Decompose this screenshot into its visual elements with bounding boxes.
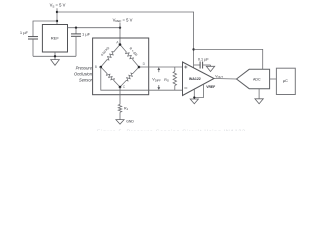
ground symbol GND bbox=[116, 120, 134, 125]
wire VS branch to ADC supply bbox=[194, 49, 263, 69]
svg-text:GND: GND bbox=[126, 120, 134, 124]
wire node C down to R1 bbox=[119, 87, 121, 104]
gain resistor RG bbox=[164, 67, 176, 90]
svg-text:Occlusion: Occlusion bbox=[74, 72, 93, 77]
resistor R1 bbox=[118, 104, 128, 112]
bridge resistor (B-C) bbox=[101, 67, 120, 87]
wire ADC to microcontroller bbox=[270, 78, 276, 80]
plus input mark bbox=[184, 66, 187, 69]
svg-text:ADC: ADC bbox=[253, 78, 261, 82]
wire VREF rail bbox=[68, 27, 121, 29]
pressure sensor module box bbox=[93, 38, 149, 95]
svg-text:Pressure: Pressure bbox=[76, 66, 93, 71]
instrumentation amplifier U2 INA122 bbox=[183, 62, 215, 96]
junction dot VREF label bbox=[119, 27, 121, 29]
bypass capacitor C3 0.1 uF bbox=[194, 58, 211, 69]
svg-text:0.1 µF: 0.1 µF bbox=[198, 58, 210, 62]
minus input mark bbox=[184, 87, 187, 89]
wire VREF down to bridge node A bbox=[119, 28, 121, 45]
svg-text:Figure 5. Pressure-Sensing Cir: Figure 5. Pressure-Sensing Circuit Using… bbox=[97, 130, 245, 131]
svg-text:VREF = 5 V: VREF = 5 V bbox=[113, 17, 133, 23]
wire VS rail to INA122 V+ bbox=[57, 12, 194, 68]
junction dot REF ground bbox=[54, 55, 56, 57]
amp V- pin wire to ground bbox=[193, 89, 195, 99]
bridge resistor (C-D) bbox=[120, 67, 139, 87]
wire REF ground stub bbox=[54, 52, 56, 60]
svg-text:µC: µC bbox=[283, 78, 288, 83]
wire R1 to ground bbox=[119, 112, 121, 119]
wire VS stub down to REF input bbox=[56, 8, 58, 24]
wire VOUT amp to ADC bbox=[214, 78, 237, 81]
wire node B to amp -in bbox=[101, 67, 183, 90]
svg-text:1 µF: 1 µF bbox=[82, 31, 91, 36]
ground symbol under ADC bbox=[255, 99, 263, 104]
ground symbol at C3 bbox=[206, 65, 214, 72]
node A bbox=[116, 40, 121, 45]
bridge resistor 4.00 kOhm (A-B) bbox=[100, 45, 120, 68]
microcontroller uC bbox=[276, 68, 295, 94]
ground symbol under amp bbox=[190, 99, 198, 104]
node B bbox=[95, 65, 102, 69]
svg-text:1 µF: 1 µF bbox=[20, 30, 29, 35]
wire ADC ground stub bbox=[258, 89, 260, 99]
svg-text:VS = 5 V: VS = 5 V bbox=[50, 3, 66, 9]
annotation VDIFF differential voltage arrows bbox=[152, 67, 161, 90]
net label VREF = 5 V bbox=[113, 17, 133, 27]
bridge resistor R + dR (A-D) bbox=[120, 45, 139, 68]
capacitor C1 1 uF bbox=[20, 30, 38, 39]
wire C1 bottom to ground rail bbox=[32, 39, 34, 56]
junction dot C1 tap bbox=[56, 20, 58, 22]
node D bbox=[138, 62, 146, 68]
amp REF pin wire bbox=[194, 84, 203, 97]
junction dot amp ground bbox=[193, 96, 195, 98]
wire node D to amp +in bbox=[139, 66, 183, 68]
svg-text:REF: REF bbox=[51, 36, 60, 41]
wire C2 bottom to ground rail bbox=[75, 36, 77, 56]
junction dot VS rail tap bbox=[56, 11, 58, 13]
junction dot VS to ADC branch bbox=[192, 48, 194, 50]
svg-text:VREF: VREF bbox=[206, 85, 215, 89]
svg-text:INA122: INA122 bbox=[189, 77, 201, 81]
svg-text:VOUT: VOUT bbox=[215, 74, 223, 79]
capacitor C2 1 uF bbox=[71, 28, 91, 37]
ground symbol under REF bbox=[51, 60, 60, 66]
wire C1 top branch bbox=[33, 21, 57, 36]
wire ground rail under REF bbox=[33, 55, 76, 57]
ADC converter bbox=[237, 69, 270, 88]
voltage reference U1 REF bbox=[42, 25, 67, 53]
junction dot C2 tap bbox=[75, 27, 77, 29]
label Pressure Occlusion Sensor bbox=[74, 66, 93, 83]
svg-text:Sensor: Sensor bbox=[79, 78, 93, 83]
node C bbox=[119, 85, 126, 89]
